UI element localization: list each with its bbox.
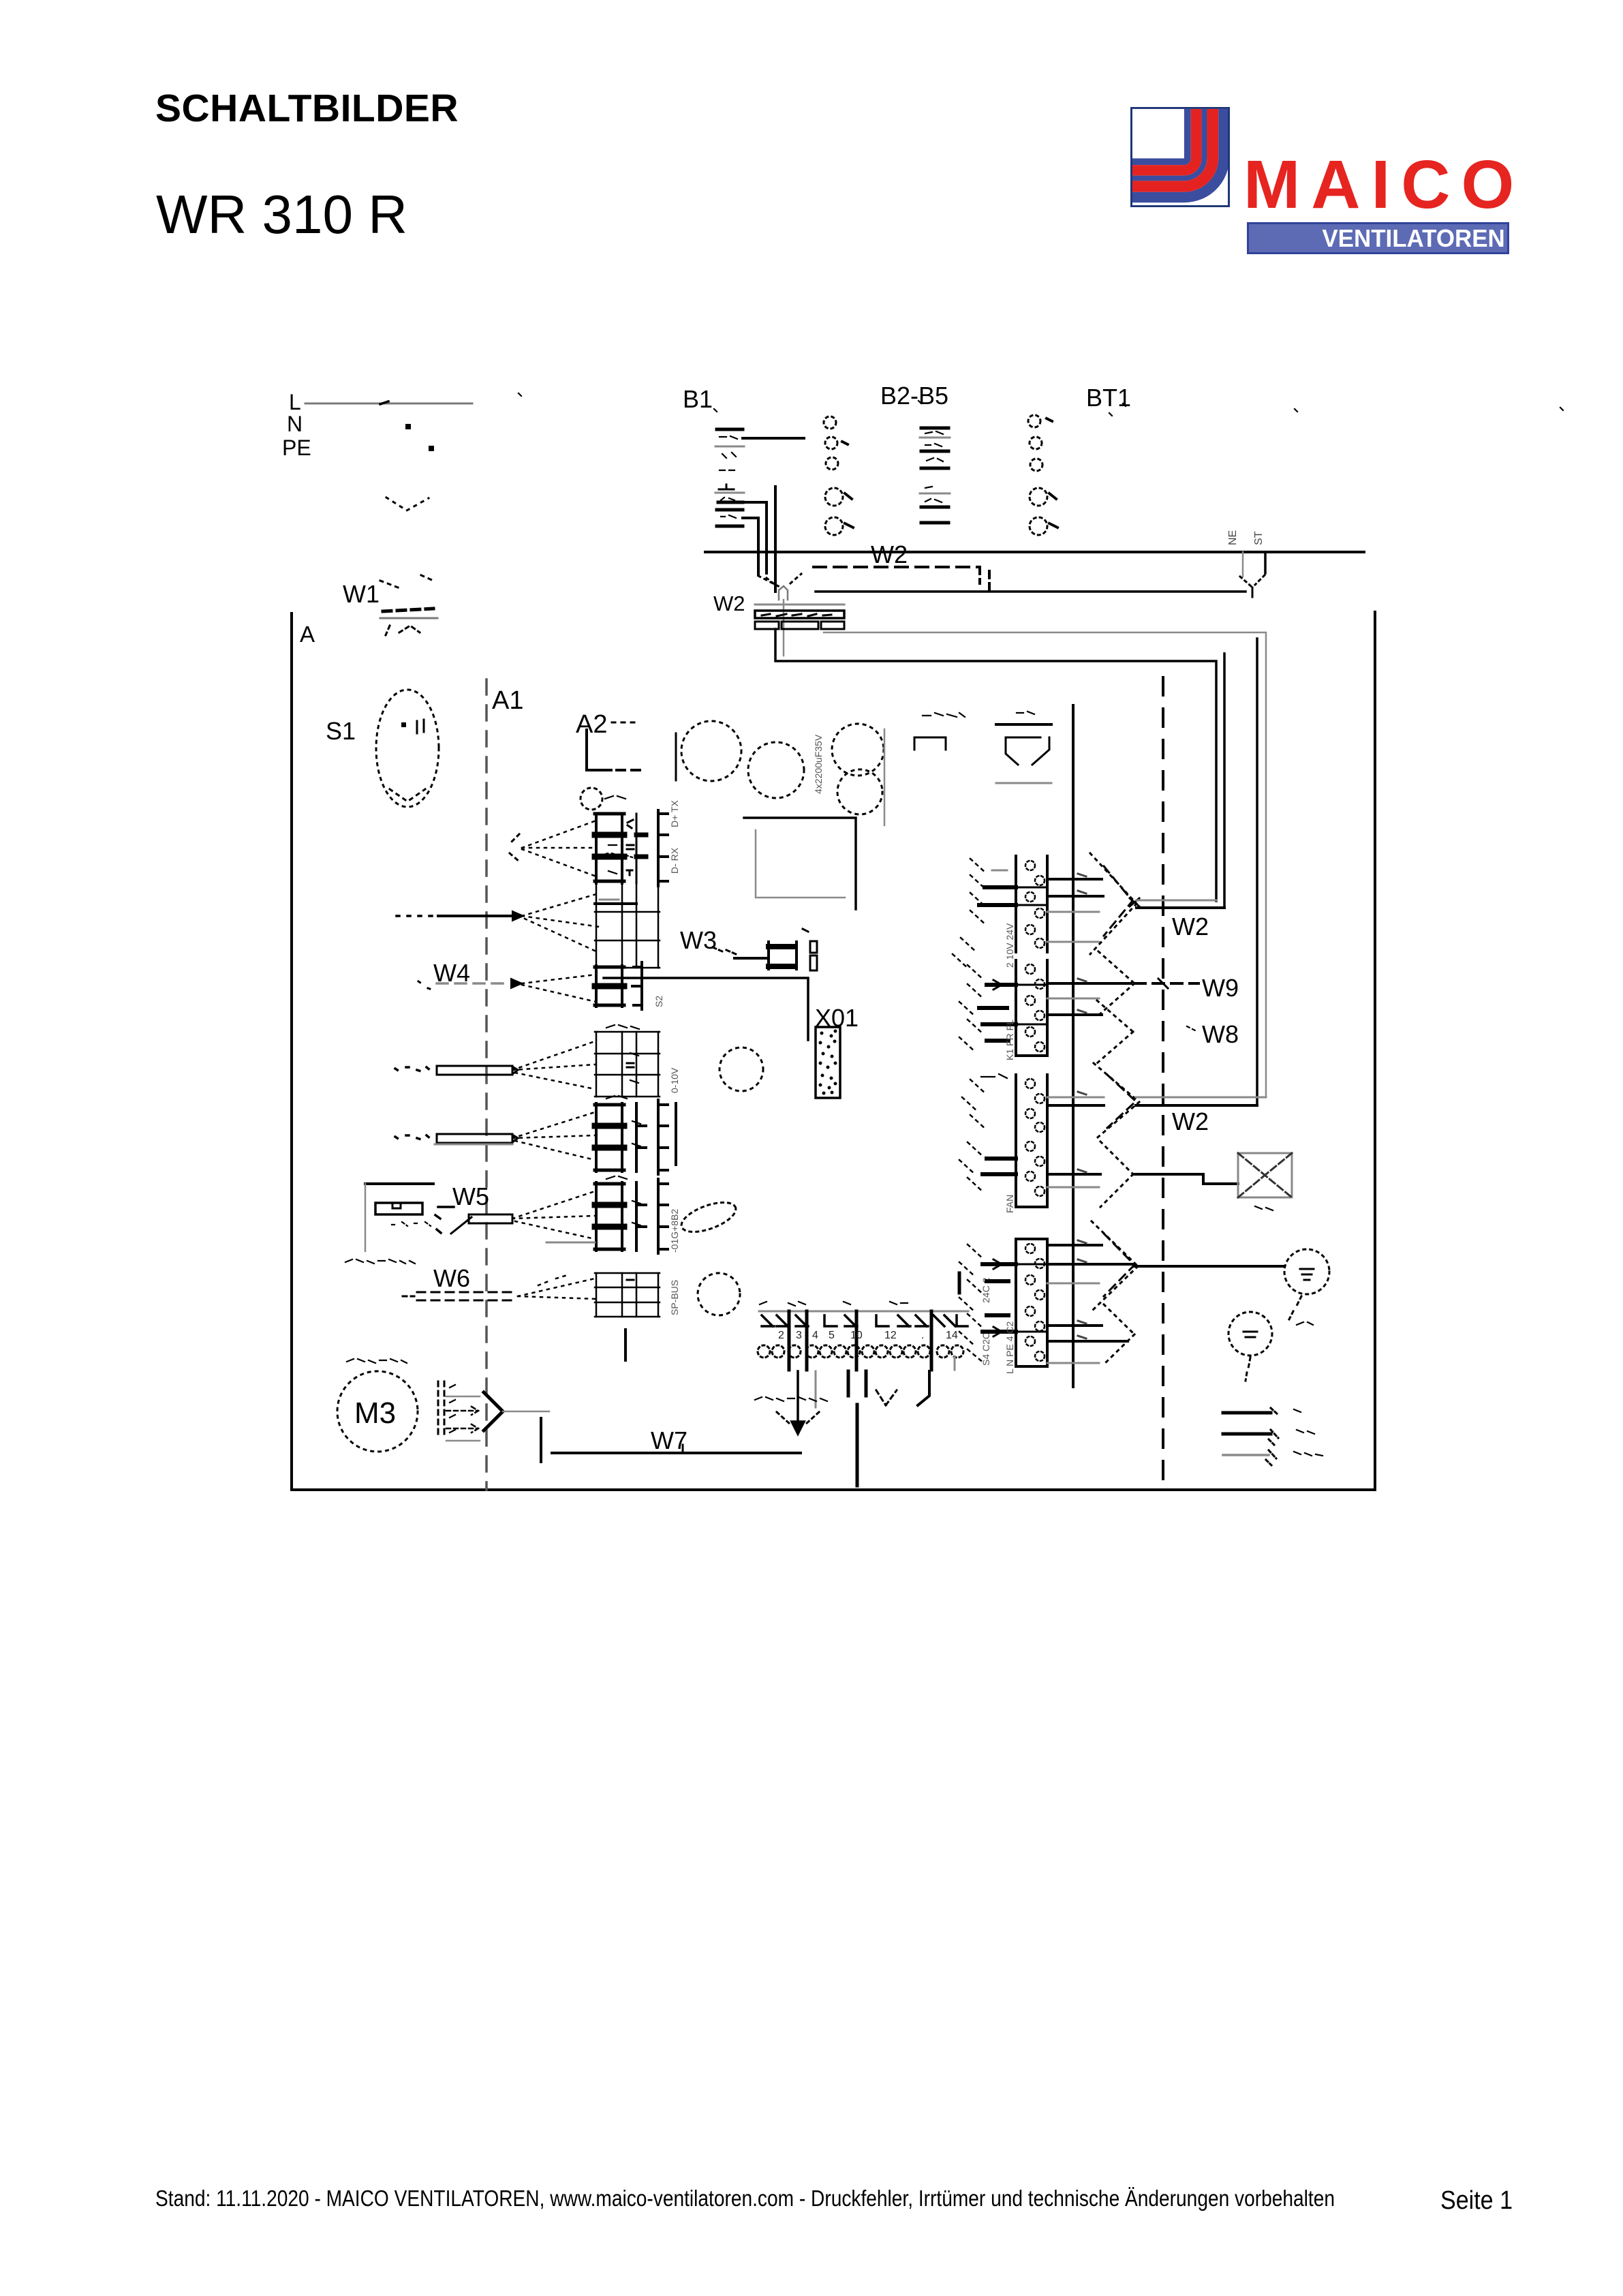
header J5 arrow marks (993, 1259, 1002, 1336)
svg-text:W8: W8 (1202, 1020, 1239, 1048)
wire B1 top (743, 437, 804, 440)
arrow cluster A dotted (1090, 853, 1137, 954)
capacitor bank right bar (884, 729, 886, 825)
wire J2 r3 (1047, 1013, 1102, 1016)
wire mains dotted chevron (386, 498, 429, 510)
header J2 row ticks (1016, 985, 1047, 1024)
sensor TL name dots (345, 1259, 415, 1264)
header J3 pins dotted (1025, 1079, 1045, 1132)
cable bar D-in (437, 1134, 512, 1143)
svg-text:W2: W2 (1172, 913, 1209, 940)
damper box diagonal (1238, 1153, 1292, 1197)
motor cable stub (540, 1418, 542, 1462)
cable bar D-in fans (512, 1112, 595, 1160)
svg-text:5: 5 (829, 1330, 835, 1341)
cable gather dotted chevron (758, 574, 801, 587)
cable bar D-in gray underline (435, 1144, 512, 1146)
connector U7 stub below (624, 1330, 627, 1360)
motor wire U (446, 1396, 480, 1398)
connector U2 gray pin (600, 899, 619, 901)
connector U6 cells (595, 1182, 624, 1251)
shield terminal tail (1246, 1358, 1250, 1381)
aux center post (856, 1405, 859, 1486)
legend line SL gray (1223, 1454, 1269, 1456)
wire W2b link black (1136, 1104, 1257, 1107)
board right dashed boundary (1162, 677, 1164, 1490)
earth terminal PE dotted (1284, 1249, 1329, 1294)
svg-text:K1 FR FL: K1 FR FL (1004, 1020, 1015, 1060)
wire B1 drop (774, 487, 777, 592)
earth terminal PE glyph (1300, 1269, 1314, 1280)
label dots row (519, 393, 1563, 416)
motor wire 4 (446, 1440, 480, 1442)
wire L tick (380, 401, 388, 404)
wire L (305, 403, 472, 405)
arrow W9 dotted (1098, 951, 1134, 1015)
wire W2 out black2 (1223, 654, 1226, 908)
aux tick mark (876, 1390, 897, 1405)
connector U5 cells (595, 1103, 624, 1172)
header J1 gray stub (992, 870, 1007, 872)
header J1 row ticks (1016, 887, 1047, 905)
VENTILATOREN banner (1247, 222, 1509, 254)
cable bar S-bus tail dots (395, 1067, 430, 1071)
svg-text:D+ TX: D+ TX (669, 800, 680, 827)
header J3 rails (1016, 1075, 1047, 1137)
motor cable gray out (503, 1411, 549, 1413)
wire J1 r4 gray (1047, 941, 1099, 943)
svg-text:S2: S2 (653, 996, 664, 1007)
wire W2 out black3 (1256, 639, 1258, 1105)
terminal strip bold posts (789, 1311, 931, 1370)
motor M3 body dotted (337, 1371, 418, 1452)
cable W5 lead bracket (435, 1207, 454, 1233)
damper box (1238, 1153, 1292, 1197)
svg-text:W2: W2 (713, 592, 745, 615)
cable bar S-bus fans (512, 1041, 595, 1089)
capacitor C4 dotted (837, 769, 882, 814)
connector U6 middle stubs (636, 1182, 646, 1251)
wire B1 mid (743, 502, 767, 573)
page number (1440, 2187, 1513, 2216)
wire W4 lead dots (418, 981, 432, 990)
spare circle dotted B (698, 1273, 740, 1315)
cable fan U1 wires (522, 821, 596, 876)
relay box left bottom (756, 830, 845, 898)
legend line N hook (1269, 1430, 1278, 1445)
connector W3 housing (769, 942, 797, 969)
arrow cluster D dotted (1104, 1304, 1134, 1364)
model name (156, 187, 407, 242)
svg-text:N: N (287, 412, 303, 436)
wire sensor fans (522, 894, 600, 951)
wire W4 fans (522, 975, 596, 1002)
arrow cluster A dashed (1104, 866, 1132, 936)
connector U1 middle column (636, 814, 638, 883)
sensor B1 tiny marks (720, 436, 737, 518)
relay box top right (744, 818, 856, 909)
aux posts pair (848, 1371, 866, 1396)
connector U4 grid (595, 1032, 660, 1097)
wire NE drop (1242, 552, 1244, 577)
header J4 approach slashes (959, 1142, 984, 1193)
wire J5 r4 (1047, 1324, 1102, 1327)
header X01 dotted body (816, 1027, 840, 1098)
cable fan U1 chevron (510, 834, 519, 861)
svg-text:PE: PE (282, 435, 311, 460)
svg-text:NE: NE (1227, 530, 1239, 545)
svg-text:0-10V: 0-10V (669, 1067, 680, 1093)
module A2 corner bracket (587, 730, 611, 770)
cable W6 fans (518, 1274, 596, 1299)
legend line L hook (1271, 1408, 1278, 1415)
sensor B1 gray bars (715, 446, 744, 493)
wire sensor in dotted tail (397, 915, 435, 917)
svg-text:2 10V 24V: 2 10V 24V (1004, 923, 1015, 968)
terminal strip pin slashes (762, 1315, 968, 1326)
earth drop gray mate (815, 1371, 817, 1407)
motor wire V arrow (446, 1407, 478, 1415)
svg-text:W2: W2 (871, 540, 908, 568)
connector U1 bracket (658, 810, 668, 886)
connector U5 side bar (675, 1103, 677, 1165)
wire J1 r2 (1047, 895, 1103, 898)
damper label dashes (1255, 1206, 1273, 1210)
switch S1 lower chevron (390, 789, 425, 801)
svg-text:10: 10 (850, 1330, 863, 1341)
header J1 approach slashes (953, 859, 987, 969)
legend label L (1294, 1409, 1301, 1412)
wire W2 out gray (824, 632, 1266, 1097)
cable W1 lower marks (386, 626, 420, 635)
legend label N (1297, 1430, 1314, 1434)
wire J1 r3 gray (1047, 911, 1099, 913)
connector U6 bracket (658, 1179, 668, 1253)
connector W2 pin dashes (762, 614, 831, 616)
svg-text:A2: A2 (576, 710, 607, 739)
header J4 rails (1016, 1137, 1047, 1207)
wire PE dot (429, 446, 434, 451)
strip feeder post (958, 1273, 961, 1293)
cable W5 fans (512, 1191, 595, 1239)
enclosure A left edge (290, 613, 293, 1490)
header J2 arrow mark (993, 980, 1002, 990)
wire W2 link black (1137, 906, 1224, 909)
cable W5 slash (451, 1217, 472, 1234)
sensor TL dotted row (392, 1222, 431, 1226)
connector U4 glyph (627, 1063, 634, 1067)
svg-text:SP-BUS: SP-BUS (669, 1280, 680, 1315)
earth dashed funnel (777, 1412, 819, 1424)
legend line L (1223, 1411, 1271, 1415)
header J5 row ticks (1016, 1264, 1047, 1332)
emblem border square (1131, 108, 1228, 206)
pcb bus vertical (1072, 705, 1075, 1387)
wire J5 r6 gray (1047, 1362, 1099, 1364)
capacitor C1 dotted (681, 721, 741, 781)
arrow cluster A tip (1130, 898, 1139, 906)
connector U3 bracket (632, 962, 642, 1009)
svg-text:A: A (300, 622, 315, 647)
svg-text:W6: W6 (433, 1264, 470, 1292)
legend label SL (1294, 1452, 1323, 1456)
svg-text:D- RX: D- RX (669, 847, 680, 874)
motor wire W arrow (446, 1424, 478, 1433)
header J3 approach slashes (962, 1080, 987, 1130)
motor M3 name dots (347, 1359, 407, 1363)
header J1 pins dotted (1025, 861, 1045, 948)
LED gray bar (996, 782, 1051, 784)
header J2 rails (1016, 960, 1047, 1056)
svg-text:BT1: BT1 (1086, 384, 1131, 412)
LED top bar (996, 723, 1051, 726)
svg-text:W1: W1 (343, 580, 380, 608)
svg-text:3: 3 (796, 1330, 802, 1341)
cable W6 tail (403, 1296, 414, 1298)
sensor B1 terminal bars (717, 429, 743, 526)
cable bar S-bus (437, 1066, 512, 1075)
bus wire main (705, 551, 1364, 553)
arrow W8 dotted (1097, 1000, 1133, 1063)
sensor B2-B5 terminal bars (921, 428, 948, 523)
header J5 rails (1016, 1239, 1047, 1366)
cable bar D-in nub (512, 1135, 518, 1142)
connector U1 pin glyphs (627, 820, 634, 875)
sensor TL top line (365, 1182, 433, 1185)
contact circle marks BT1 (1047, 418, 1057, 527)
page title (155, 89, 459, 128)
motor cable chevron (484, 1392, 503, 1430)
contact circles column B (824, 416, 843, 535)
wire W2 data line (816, 590, 1246, 593)
motor phase labels (450, 1385, 455, 1433)
cable bar D-in tail dots (395, 1135, 430, 1139)
wire J4 r2 gray (1047, 1187, 1099, 1189)
svg-text:W9: W9 (1202, 974, 1239, 1002)
wire W2 link gray (1137, 900, 1216, 902)
MAICO wordmark (1243, 151, 1525, 219)
motor connector dashed strip (438, 1381, 444, 1435)
sensor TL left drop (365, 1184, 367, 1251)
wire fan link (1133, 1174, 1238, 1184)
svg-text:S1: S1 (326, 717, 356, 745)
arrow fan dotted (1100, 1142, 1133, 1207)
wire sensor arrowhead (512, 911, 523, 921)
earth label marks (1297, 1322, 1313, 1325)
connector U1 cells (595, 814, 624, 883)
wire W7 (552, 1452, 801, 1454)
svg-text:B2-B5: B2-B5 (880, 382, 948, 410)
legend line N (1223, 1433, 1271, 1436)
cable W1 gray bar (380, 617, 437, 619)
sensor B1 earth mark (719, 485, 734, 489)
NE ST gather chevron (1240, 575, 1265, 586)
DIP switch bracket (914, 737, 946, 750)
arrow cluster B dotted (1094, 1063, 1139, 1141)
switch S1 position marks (417, 720, 424, 733)
connector W3 tiny mark (803, 929, 808, 932)
bus W2 dashed branch (814, 566, 980, 568)
sensor TL body cells (392, 1203, 401, 1208)
terminal strip socket circles (758, 1345, 963, 1358)
connector U1 middle stubs (636, 835, 646, 857)
cable W5 bar (469, 1214, 512, 1223)
wire J4 r1 (1047, 1173, 1100, 1176)
wire N dot (405, 424, 411, 429)
capacitor C2 dotted (748, 742, 804, 798)
svg-text:12: 12 (884, 1330, 897, 1341)
legend line SL hook (1266, 1450, 1276, 1465)
svg-text:2: 2 (778, 1330, 784, 1341)
svg-text:4x2200uF35V: 4x2200uF35V (813, 734, 824, 794)
header J5 left stubs (983, 1264, 1016, 1332)
svg-text:W5: W5 (452, 1182, 489, 1210)
svg-text:14: 14 (946, 1330, 958, 1341)
switch S1 center dot (401, 722, 406, 727)
header J2 approach slashes (959, 965, 984, 1052)
cable W8 lead dots (1187, 1026, 1195, 1030)
wire W2 out black (775, 629, 1216, 901)
emblem stripes (1132, 109, 1224, 198)
connector U6 labels (606, 1176, 640, 1225)
header X01 pin dots (819, 1030, 837, 1095)
wire W3 (735, 957, 769, 960)
switch S1 dotted body (376, 690, 439, 807)
header J2 pins dotted (1025, 964, 1045, 1052)
connector U2 grid (595, 883, 660, 968)
wire J3 r1 gray (1047, 1097, 1104, 1099)
contact circle marks B (842, 442, 853, 527)
wire J2 r2 gray (1047, 998, 1099, 1000)
LED label dashes (1017, 711, 1034, 714)
wire B1 low (743, 518, 758, 575)
earth drop wire (792, 1371, 804, 1434)
connector W3 mate tabs (810, 941, 817, 970)
arrow cluster B dashed (1107, 1075, 1136, 1128)
LED body (1006, 737, 1049, 765)
bus W2 dashed hooks (980, 567, 989, 590)
cable W6 dashed pair (417, 1292, 514, 1300)
ferrite pill dotted (678, 1197, 740, 1238)
module A2 dotted circle (581, 788, 602, 810)
aux J hook (918, 1371, 929, 1405)
cable W1 dash row (383, 609, 433, 611)
shield terminal glyph (1243, 1332, 1257, 1337)
wire W4 arrowhead (511, 979, 522, 988)
earth terminal tail (1289, 1296, 1301, 1319)
connector U5 middle stubs (636, 1103, 646, 1172)
terminal strip X2 rail (759, 1311, 968, 1313)
contact circles column BT1 (1028, 415, 1047, 535)
cable bar S-bus nub (512, 1067, 518, 1074)
cable gather tip (779, 586, 788, 600)
header J2 left stubs (979, 985, 1016, 1041)
shield terminal dotted (1228, 1312, 1272, 1356)
cable W3 squiggle (713, 947, 736, 954)
cable W1 upper dashes (380, 575, 433, 587)
chassis label dots (755, 1397, 827, 1401)
pcb corner X01 (604, 978, 808, 1040)
svg-text:W3: W3 (680, 926, 717, 954)
header J4 left stubs (983, 1159, 1016, 1174)
svg-text:FAN: FAN (1004, 1195, 1015, 1213)
cable fan U1 labels (605, 796, 625, 874)
svg-text:B1: B1 (683, 385, 713, 413)
footer line (155, 2186, 1335, 2211)
svg-text:ST: ST (1253, 531, 1265, 545)
sensor B2-B5 tiny marks (925, 431, 943, 502)
arrow cluster C dashed (1104, 1234, 1134, 1296)
wire J1 r1 (1047, 878, 1102, 881)
svg-text:M3: M3 (354, 1396, 396, 1430)
wire J5 r1 (1047, 1244, 1102, 1246)
sensor B2-B5 gray bars (920, 438, 950, 493)
wire W7 tick (682, 1445, 684, 1453)
enclosure A bottom edge (292, 1488, 1375, 1491)
connector U2 heavy row (595, 902, 636, 905)
header J4 pins dotted (1025, 1142, 1045, 1196)
wire W2b link gray (1136, 1097, 1266, 1099)
header J1 left stubs (979, 887, 1016, 905)
svg-text:A1: A1 (492, 686, 523, 715)
terminal strip pin labels top (760, 1302, 908, 1306)
connector W2 upper housing (755, 611, 844, 618)
wire J3 r2 (1047, 1104, 1104, 1107)
cable fan U2 label (600, 853, 632, 857)
header J5 pins dotted (1025, 1244, 1045, 1361)
capacitor C3 dotted (832, 724, 884, 776)
svg-text:W2: W2 (1172, 1107, 1209, 1135)
aux gray post (954, 1356, 956, 1370)
enclosure A right edge (1374, 612, 1376, 1490)
wire J5 r2 (1047, 1263, 1134, 1266)
module A2 top dashes (612, 722, 639, 724)
wire W4 gray dashed (437, 982, 510, 985)
svg-text:-01G+8B2: -01G+8B2 (669, 1209, 680, 1253)
wire PE link (1134, 1265, 1284, 1268)
board A1 dashed boundary (485, 679, 488, 1490)
connector U4 labels (606, 1025, 639, 1083)
header J5 approach slashes (959, 1244, 984, 1363)
arrow cluster C dotted (1092, 1221, 1138, 1311)
connector U7 glyph (627, 1279, 634, 1281)
wire U6 gray in (546, 1242, 595, 1244)
connector U5 labels (606, 1096, 640, 1146)
svg-text:L N PE 4 C2: L N PE 4 C2 (1004, 1321, 1015, 1374)
connector U3 cells (595, 966, 624, 1007)
MAICO logo emblem (1130, 107, 1230, 207)
connector W3 contact bars (769, 947, 794, 966)
capacitor bank left bar (675, 733, 677, 780)
cable gather tail (783, 600, 785, 656)
spare circle dotted A (720, 1047, 763, 1091)
connector U7 grid (595, 1273, 660, 1317)
wire J5 r3 gray (1047, 1283, 1099, 1285)
svg-text:.: . (921, 1330, 924, 1341)
svg-text:4: 4 (812, 1330, 818, 1341)
wire J5 r5 (1047, 1340, 1128, 1343)
wire J2 r1 (1047, 982, 1131, 985)
NE ST gather tail (1252, 587, 1254, 597)
sensor TL body (375, 1203, 422, 1214)
wire ST drop (1264, 552, 1267, 573)
module A2 bracket dashes (617, 769, 646, 771)
wire W9 junction cross (1158, 979, 1168, 988)
svg-text:L: L (289, 390, 301, 414)
wire W9 dashed (1134, 982, 1199, 985)
bus row tags (1078, 874, 1086, 1338)
connector W2 lower housing tabs (755, 622, 844, 629)
